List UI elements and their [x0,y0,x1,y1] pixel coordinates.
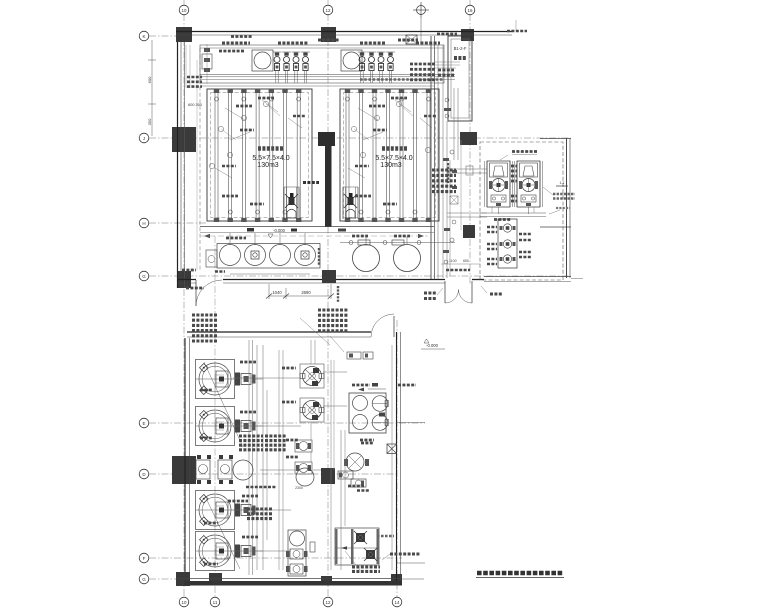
annotation platform top row1 [222,42,250,45]
pipe rack lower plan [248,340,250,575]
grid line vertical axis 16 [469,14,471,285]
column top-right [461,29,474,41]
grid bubble D left [139,469,149,479]
tank1 internal column 5 [269,93,271,218]
annotation extra tank1 [215,168,232,178]
svg-text:5.5×7.5×4.0: 5.5×7.5×4.0 [252,155,289,162]
dim vertical left upper [151,40,153,136]
svg-text:12: 12 [325,8,331,13]
grid bubble 10 bottom [179,597,189,607]
wall bottom upper plan [177,279,196,281]
pump group2 P3 [379,53,383,56]
sewage tank unit 2 [196,407,235,446]
tank2 internal column 4 [386,93,388,218]
column mid axis G [322,270,336,283]
svg-text:10: 10 [181,600,187,605]
annotation extra tank2 [348,168,365,178]
tank divider wall [318,132,335,146]
annotation tank unit labels [240,361,256,364]
grid line horizontal axis K [149,35,178,37]
grid line vertical axis 14 [396,320,398,597]
annotation leader bottom-right [390,553,420,556]
door top lower plan [393,316,395,337]
grid line horizontal axis E [149,422,425,424]
filter unit 1 box [252,50,273,71]
dark tag right of divider [338,229,346,232]
annotation inside tank1 [225,108,245,120]
leader diagonal across tanks 3-4 [204,494,240,569]
pump group1 P4 [303,53,307,56]
wall stub right mid [540,226,571,228]
grid line vertical axis 12 [327,14,329,597]
tank top edge line [200,85,434,87]
pump group2 P1 [360,53,364,56]
grid bubble F2 left [139,574,149,584]
grid bubble F left [139,553,149,563]
wall top lower plan [187,331,371,333]
svg-text:K: K [142,34,145,39]
circled tags tank2 [351,126,356,131]
svg-text:J: J [143,136,145,141]
svg-text:600: 600 [147,76,152,83]
svg-text:B1-2-F: B1-2-F [454,46,467,51]
wall stub right axis G [484,276,571,278]
annotation pump row [226,237,246,240]
circled tags tank1 [218,126,223,131]
annotation platform right long [360,78,444,81]
svg-text:1040: 1040 [272,290,282,295]
annotation inside tank2 [358,108,378,120]
svg-text:F: F [143,556,146,561]
tank2 label [382,146,408,151]
pump group1 P3 [294,53,298,56]
grid line horizontal axis D [149,473,398,475]
grid bubble K left [139,31,149,41]
annex unit label above [512,150,537,153]
wall stub right axis J [540,138,571,140]
big pump circle 2 [394,245,421,272]
grid bubble H left [139,218,149,228]
section crosshair symbol [417,6,426,15]
bottom-right leader texts [377,535,394,538]
grid line vertical axis 10 [183,14,185,597]
svg-text:2300: 2300 [295,486,303,490]
sewage tank unit 4 [196,532,235,571]
svg-text:14: 14 [394,600,400,605]
annotation block lower plan mid grid [239,434,263,437]
transfer pump stems [229,233,231,245]
column mid lower [321,468,335,484]
annex pipe row below units [480,212,546,214]
grid bubble 11 bottom [210,597,220,607]
transfer pump T1 [220,245,241,266]
svg-text:5.5×7.5×4.0: 5.5×7.5×4.0 [375,155,412,162]
wall bottom lower plan [184,581,402,586]
filter unit 2 box [341,50,362,71]
grid bubble G left [139,271,149,281]
annotation block lower plan top-center [318,308,348,311]
column bottom 12 [321,576,332,585]
leader diagonal across tanks 1-2 [204,362,243,447]
svg-text:2690: 2690 [301,290,311,295]
mid pump X1 [300,364,324,388]
pump group2 P4 [388,53,392,56]
valve on pipe axis12 [310,542,315,552]
svg-text:G: G [142,274,146,279]
mid small pump 2 [295,462,312,474]
grid line horizontal axis G [149,275,571,277]
tank1 label [258,146,284,151]
wall right of tank room [430,36,432,279]
bottom-center circle [290,531,305,546]
sewage tank unit 1 [196,360,235,399]
tank1 internal column 7 [296,93,298,218]
tank1 internal column 2 [228,93,230,218]
pump set right-mid small [338,471,353,479]
annex pump unit 1 [484,161,486,207]
grid bubble 12 top [323,5,333,15]
tank 2 outline [340,89,439,221]
pump group1 P2 [284,53,288,56]
bottom-center pump stack frame [288,530,306,576]
annex unit mid tags [511,165,517,168]
bottom-center pump B [290,564,303,574]
transfer pump T4 [295,245,316,266]
x-box on top wall [406,35,417,44]
wall stub lines right of lower plan [396,422,425,424]
pipes into vent area [434,61,460,63]
svg-text:-0.000: -0.000 [273,228,286,233]
vent shaft B1-2-F [448,36,472,121]
svg-text:350: 350 [147,118,152,125]
small cabinet left of pump row [206,250,217,267]
svg-text:-0.000: -0.000 [426,343,439,348]
circle pump right-mid [346,453,364,471]
tank2 internal column 1 [345,93,347,218]
svg-text:130m3: 130m3 [257,162,279,169]
transfer pump T3 [270,245,291,266]
svg-text:11: 11 [213,600,218,605]
svg-text:130m3: 130m3 [380,162,402,169]
annotation right stack upper [410,63,436,66]
annex dashed boundary [480,142,563,280]
column right annex [463,225,475,238]
grid line horizontal axis F [149,557,402,559]
dimension line 1040/2690 [269,295,331,297]
grid bubble 14 bottom [392,597,402,607]
svg-text:12: 12 [325,600,331,605]
grid line horizontal axis H [149,222,207,224]
mid pump X2 [300,398,324,422]
section mark 1-1 [556,185,568,187]
grid bubble 10 top [179,5,189,15]
column left lower big [172,456,196,484]
pipe centerline with arrows [200,235,428,237]
pump group1 P1 [275,53,279,56]
transfer pump T2 [245,245,266,266]
pump group2 P2 [369,53,373,56]
svg-text:G: G [142,577,146,582]
svg-text:16: 16 [467,8,473,13]
tank1 internal column 3 [241,93,243,218]
door labels below upper plan [424,292,437,295]
cabinet rects top right lower plan [347,352,361,359]
tank2 internal column 6 [413,93,415,218]
pump pair mid-left [196,460,210,479]
svg-text:1-1: 1-1 [560,181,565,185]
column top-left [176,27,192,42]
grid line vertical axis 11 [214,236,216,597]
column bottom 11 [209,573,222,585]
column top-mid [321,27,336,42]
tank2 internal column 5 [399,93,401,218]
pipe horizontals lower plan [233,377,301,379]
drawing title [477,571,563,576]
tank1 internal column 1 [214,93,216,218]
pipe below pump row [230,273,310,275]
wall right outer [566,138,568,278]
tank2 sump [342,187,344,219]
valve line above big pumps [340,242,455,244]
tank room inner floor lines [200,226,434,228]
column right axis J [460,132,477,145]
pipe rack fittings [450,150,454,154]
svg-text:H: H [142,221,145,226]
sewage tank unit 3 [196,491,235,530]
tank1 sump [283,187,285,219]
annotation block bottom near wall [352,565,380,568]
annotation mid pumps labels [282,367,296,370]
svg-text:650: 650 [463,259,469,263]
svg-text:10: 10 [181,8,187,13]
annotation platform top row2 [360,42,386,45]
column bottom 14 [391,574,402,584]
pipes annex connect [447,212,487,214]
double door bottom of upper plan [444,281,446,303]
tank1 internal column 6 [283,93,285,218]
column left axis J [172,127,196,152]
big pump circle 1 [353,245,380,272]
mid circle below pumps [296,468,314,486]
annotation block pipes mid [247,507,273,510]
annex rotated dim [447,163,449,183]
inner wall dashed left [199,48,201,270]
svg-text:600 350: 600 350 [188,103,202,107]
tags under bottom wall left [186,287,204,290]
grid line horizontal axis J [149,137,571,139]
rotated dim right of pump row [318,248,320,266]
tank2 internal column 3 [372,93,374,218]
wall top upper plan [176,31,512,33]
annotation pipes along left wall [187,76,202,79]
grid bubble 12 bottom [323,597,333,607]
annotation block upper-left of lower plan [192,313,218,316]
annex label right [543,187,553,195]
transfer pump row box [217,244,320,269]
pipe rack vertical right [442,45,444,278]
x-box small [387,444,397,454]
tank2 internal column 2 [359,93,361,218]
tank 1 outline [207,89,312,221]
annex lower labels [487,226,497,229]
grid bubble J left [139,133,149,143]
grid bubble 16 top [465,5,475,15]
annex equipment lower [498,219,517,268]
equipment platform outline [200,45,444,83]
wall right lower plan [396,332,398,583]
bottom-right equipment unit [335,528,379,565]
bottom-center pump A [290,549,303,559]
pipe inside right wall lower plan [391,345,393,570]
column left axis G [177,271,191,288]
mid small pump 1 [295,440,312,452]
tank2 internal column 7 [426,93,428,218]
equip 4-circle box [349,393,386,433]
wall left upper plan [177,42,179,288]
column bottom 10 [176,572,190,586]
tank1 internal column 4 [255,93,257,218]
svg-text:E: E [142,421,145,426]
wall left lower plan [184,338,186,572]
annotation right pumps labels [352,384,370,387]
door lower-left of upper plan [195,280,197,306]
vent shaft label [454,56,467,60]
annex pump unit 2 [514,161,516,207]
annotation leaders top lower plan [300,318,330,345]
grid bubble E left [139,418,149,428]
